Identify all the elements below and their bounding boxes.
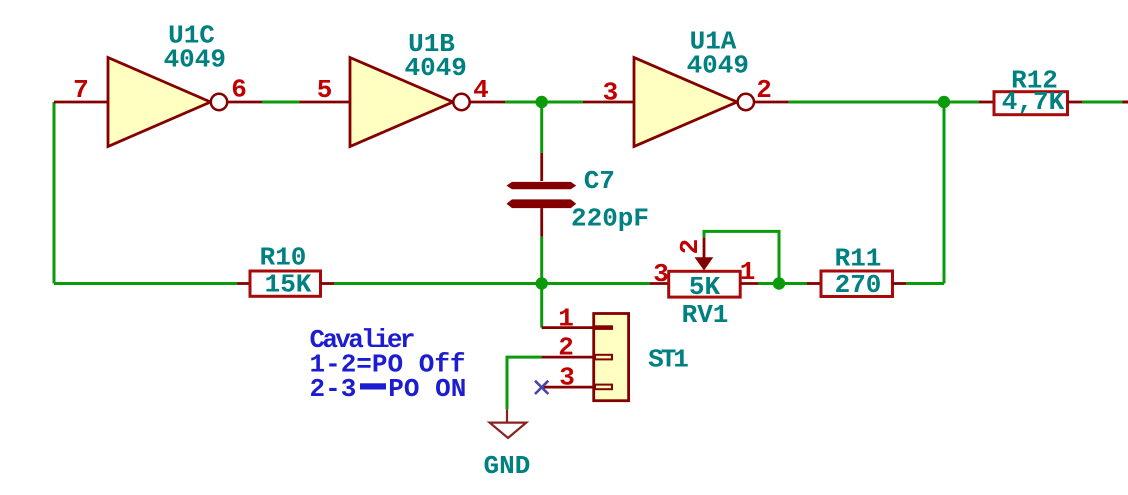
svg-text:2: 2 [756,75,772,105]
wire R12 right to edge [1082,101,1123,104]
svg-text:RV1: RV1 [682,300,729,330]
ST1 pin2 bar [595,355,612,360]
svg-text:2: 2 [558,333,574,363]
wire R11 right to corner [906,282,944,285]
wire U1A out to R12 [789,101,979,104]
svg-text:4049: 4049 [687,51,749,81]
potentiometer RV1 body [669,271,741,297]
ST1 pin3 bar [595,385,612,390]
potentiometer RV1 wiper pin [703,237,706,258]
capacitor C7 plate bottom [507,199,577,208]
svg-text:3: 3 [603,78,619,108]
U1B pin 4 wire [470,101,505,104]
wire R10 right to junction [334,282,542,285]
U1C bubble [211,94,227,110]
svg-text:5: 5 [317,75,333,105]
connector ST1 body [594,314,629,401]
ST1 pin1 wire [542,326,594,329]
no-connect X on ST1 pin3 [535,381,548,394]
U1A pin 2 wire [755,101,789,104]
svg-text:ST1: ST1 [648,345,688,375]
ST1 pin3 wire [543,386,594,389]
svg-text:2: 2 [675,239,705,255]
svg-text:4049: 4049 [164,45,226,75]
U1C pin 7 wire [54,101,108,104]
resistor R11 left stub [807,282,821,285]
svg-text:4: 4 [473,75,489,105]
resistor R12 body [994,92,1068,115]
resistor R10 left stub [237,282,250,285]
wire RV1 wiper top [704,231,779,283]
svg-text:R10: R10 [260,243,307,273]
note thick equals [360,383,386,389]
wire RV1 pin1 to R11 [758,282,807,285]
svg-text:270: 270 [835,270,882,300]
svg-text:1: 1 [740,257,756,287]
capacitor C7 pin top [540,153,543,181]
ST1 pin1 bar [594,325,613,330]
resistor R11 body [821,271,893,297]
junction dot C [536,277,548,289]
svg-text:3: 3 [653,259,669,289]
junction dot A [536,96,548,108]
resistor R10 right stub [321,282,335,285]
pin stub right edge [1123,101,1128,104]
capacitor C7 plate top [507,182,577,189]
svg-text:15K: 15K [265,270,312,300]
wire C7 top green [540,102,543,153]
svg-text:R11: R11 [835,244,882,274]
U1A pin 3 wire [583,101,634,104]
potentiometer RV1 pin1 stub [740,282,758,285]
svg-text:4049: 4049 [404,53,466,83]
svg-text:6: 6 [231,75,247,105]
svg-text:220pF: 220pF [571,204,649,234]
potentiometer RV1 pin3 stub [650,282,669,285]
svg-text:2-3: 2-3 [310,374,357,404]
svg-text:7: 7 [73,75,89,105]
wire U1C out to U1B in [262,101,300,104]
resistor R12 right stub [1068,101,1083,104]
wire junction to RV1 pin3 [542,282,650,285]
svg-text:PO ON: PO ON [388,374,466,404]
U1B bubble [453,94,469,110]
wire left vertical [53,102,56,284]
U1A bubble [738,94,754,110]
wire junction to ST1 pin1 [540,284,543,328]
wire C7 bottom green [540,237,543,284]
inverter U1B body [350,58,453,147]
junction dot D [773,277,785,289]
svg-text:4,7K: 4,7K [1002,87,1065,117]
capacitor C7 pin bottom [540,208,543,237]
junction dot B [938,96,950,108]
resistor R12 left stub [979,101,994,104]
ST1 pin2 wire [541,356,594,359]
wire U1B out to U1A in [505,101,583,104]
wire ST1 pin2 to gnd [507,357,541,409]
svg-text:5K: 5K [689,272,721,302]
inverter U1A body [634,58,737,147]
wire right vertical x944 [943,102,946,284]
inverter U1C body [108,58,211,147]
U1C pin 6 wire [228,101,263,104]
svg-text:C7: C7 [584,166,615,196]
svg-text:3: 3 [559,363,575,393]
potentiometer RV1 wiper arrow [695,257,714,270]
wire bottom left horizontal [54,282,238,285]
ground symbol [506,409,508,422]
svg-text:1: 1 [558,304,574,334]
resistor R11 right stub [893,282,907,285]
svg-text:GND: GND [483,451,530,481]
U1B pin 5 wire [300,101,351,104]
resistor R10 body [250,271,321,296]
